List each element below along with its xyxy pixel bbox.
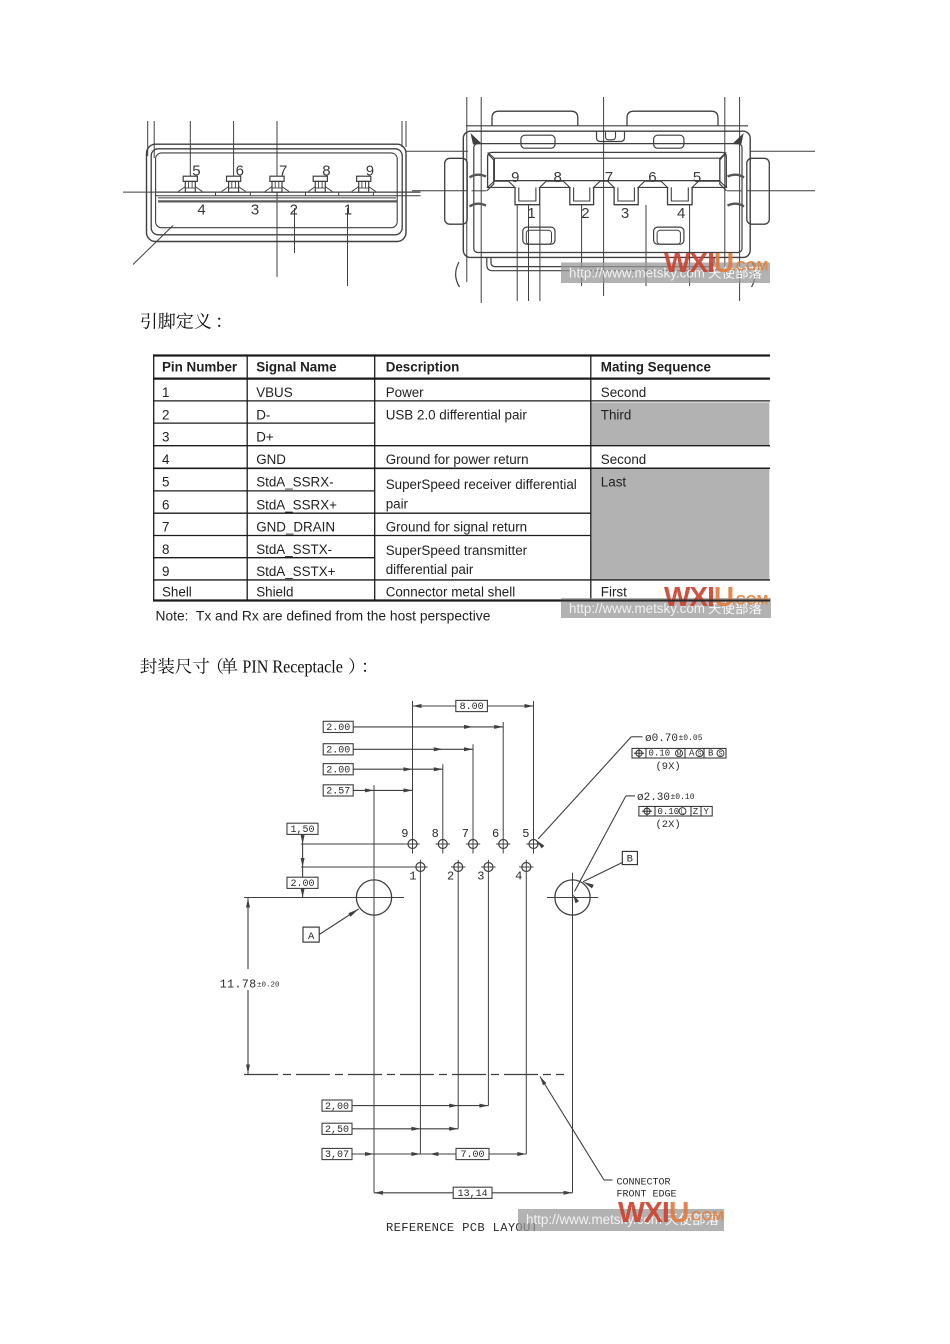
svg-text:8: 8	[432, 827, 439, 841]
wire hole B centerlines	[547, 873, 598, 1193]
svg-text:2: 2	[290, 202, 298, 219]
svg-text:6: 6	[236, 162, 244, 179]
pad 7	[466, 837, 480, 854]
side chamfer right	[720, 154, 727, 191]
svg-text:USB 2.0 differential pair: USB 2.0 differential pair	[386, 407, 528, 422]
dimension 2.00 (pins 7-6)	[323, 721, 503, 734]
svg-text:Shield: Shield	[256, 585, 293, 600]
svg-text:±0.05: ±0.05	[679, 734, 703, 743]
pad 9	[405, 837, 419, 854]
plug body outer	[463, 131, 750, 257]
watermark top url text	[569, 266, 762, 281]
svg-text:±0.10: ±0.10	[671, 793, 695, 802]
svg-text:Connector metal shell: Connector metal shell	[386, 585, 516, 600]
feature control frame 0.10 M A B	[632, 748, 726, 758]
svg-text:8.00: 8.00	[460, 702, 484, 713]
svg-text:A: A	[308, 931, 315, 943]
bottom latch right	[654, 227, 684, 244]
svg-text:6: 6	[492, 827, 499, 841]
corner fold wedge right	[732, 133, 744, 145]
pin contact 9 of left view	[352, 176, 375, 192]
svg-text:1,50: 1,50	[290, 825, 314, 836]
shelf segment ticks	[215, 192, 217, 196]
svg-text:2.00: 2.00	[326, 723, 350, 734]
svg-text:3: 3	[162, 430, 169, 445]
svg-text:0.10: 0.10	[649, 749, 671, 759]
svg-text:±0.20: ±0.20	[257, 982, 280, 990]
bottom latch left	[523, 227, 555, 244]
pad 5	[526, 837, 540, 854]
PCB reference layout drawing	[244, 700, 726, 1192]
svg-text:(2X): (2X)	[656, 819, 681, 831]
svg-text:6: 6	[162, 497, 169, 512]
svg-text:8: 8	[322, 162, 330, 179]
shell inner wall	[151, 149, 402, 235]
svg-text:SuperSpeed transmitter: SuperSpeed transmitter	[386, 543, 528, 558]
pin contact 7 of left view	[265, 176, 288, 192]
svg-text:9: 9	[401, 827, 408, 841]
opening cavity	[156, 153, 398, 228]
hole B	[555, 880, 590, 915]
pad 2	[451, 860, 465, 874]
table row pin 1	[162, 385, 646, 400]
fold shadow marks left	[470, 175, 487, 207]
svg-text:GND: GND	[256, 452, 286, 467]
section break diagonal	[133, 226, 173, 265]
plug contact 1	[515, 187, 540, 204]
svg-text:WXIU: WXIU	[664, 581, 733, 612]
svg-text:WXIU: WXIU	[664, 247, 733, 278]
svg-text:Shell: Shell	[162, 585, 192, 600]
wire horizontal projection lines	[406, 150, 468, 152]
svg-text:VBUS: VBUS	[256, 385, 293, 400]
pin contact 5 of left view	[179, 176, 202, 192]
svg-text:B: B	[627, 854, 633, 866]
svg-text:9: 9	[162, 564, 169, 579]
tongue window outer	[488, 152, 727, 187]
leader connector front edge	[540, 1077, 613, 1181]
wire construction verticals above right view	[466, 97, 468, 282]
tongue shelf top line	[156, 191, 421, 193]
datum label B	[583, 851, 637, 888]
svg-text:ø0.70: ø0.70	[645, 733, 678, 745]
watermark middle logo	[664, 581, 768, 612]
table vertical rules	[154, 356, 591, 601]
dimension 2.57 (hole A - pin 9)	[323, 785, 412, 798]
svg-text:A: A	[689, 749, 695, 759]
dimension 2,00 (pins 2-3)	[322, 1100, 488, 1113]
svg-text:Second: Second	[601, 385, 646, 400]
dimension 2.00 (pins 8-7)	[323, 744, 473, 757]
ledge teeth	[488, 181, 727, 187]
hole A	[356, 880, 391, 915]
leader to pad 5	[537, 737, 643, 849]
dimension 11.78	[220, 898, 280, 1075]
svg-text:pair: pair	[386, 496, 409, 511]
svg-text:1: 1	[162, 385, 169, 400]
bottom flange	[487, 257, 718, 270]
pad 4	[519, 860, 533, 874]
plug contact 2	[570, 187, 594, 204]
svg-text:5: 5	[192, 162, 200, 179]
center latch notch	[597, 131, 625, 141]
svg-text:4: 4	[197, 202, 205, 219]
svg-text:Second: Second	[601, 452, 646, 467]
svg-text:StdA_SSTX-: StdA_SSTX-	[256, 542, 332, 557]
wire reference line bottom pin row	[301, 866, 413, 868]
svg-text:B: B	[708, 749, 714, 759]
bottom right hook curve	[752, 262, 756, 287]
dimension 2.00 (pins 9-8)	[323, 764, 443, 777]
svg-text:2.00: 2.00	[290, 879, 314, 890]
svg-text:4: 4	[677, 205, 685, 222]
svg-text:7: 7	[462, 827, 469, 841]
pad 8	[436, 837, 450, 854]
svg-text:CONNECTOR: CONNECTOR	[617, 1178, 671, 1189]
outer shell	[147, 144, 407, 241]
svg-text:StdA_SSRX+: StdA_SSRX+	[256, 497, 337, 512]
table gray cell Last (rows 5-9)	[592, 469, 770, 580]
wire construction lines below left view	[276, 121, 278, 277]
heading: package dimensions (Chinese + PIN Receptacle)	[140, 658, 366, 674]
svg-text:1: 1	[527, 205, 535, 222]
svg-text:2: 2	[581, 205, 589, 222]
callout 0.70 hole size	[645, 733, 703, 745]
svg-text:.COM: .COM	[687, 1209, 724, 1225]
table row pin 7	[162, 520, 527, 535]
svg-text:7.00: 7.00	[460, 1150, 484, 1161]
wire construction lines above left view	[147, 121, 149, 156]
wire extension lines of top pin columns	[413, 701, 534, 837]
svg-text:13,14: 13,14	[458, 1189, 488, 1200]
svg-text:WXIU: WXIU	[618, 1197, 688, 1229]
svg-text:SuperSpeed receiver differenti: SuperSpeed receiver differential	[386, 477, 577, 492]
svg-text:5: 5	[522, 827, 529, 841]
table bottom border over watermark	[561, 600, 770, 602]
spring window left	[521, 135, 555, 148]
wire extension lines of bottom pin columns	[420, 874, 526, 1154]
top bump left	[492, 111, 578, 126]
side chamfer left	[487, 154, 494, 191]
wire left stub of tongue line	[123, 191, 155, 193]
feature control frame 0.10 L Z Y	[639, 806, 712, 817]
pad 6	[496, 837, 510, 854]
table gray cell Third (rows 2-3)	[592, 402, 770, 445]
svg-text:Ground for power return: Ground for power return	[386, 452, 529, 467]
tongue window inner	[494, 158, 720, 180]
wire construction verticals below right view	[516, 205, 518, 301]
svg-text:Power: Power	[386, 385, 424, 400]
svg-text:GND_DRAIN: GND_DRAIN	[256, 520, 335, 535]
pin contact 6 of left view	[222, 176, 245, 192]
bottom left hook curve	[456, 262, 460, 287]
svg-text:StdA_SSRX-: StdA_SSRX-	[256, 475, 333, 490]
svg-text:D-: D-	[256, 407, 270, 422]
svg-text:11.78: 11.78	[220, 979, 257, 992]
svg-text:Y: Y	[704, 807, 710, 817]
svg-text:6: 6	[648, 169, 656, 186]
heading: pin definition (Chinese)	[141, 313, 220, 330]
svg-text:M: M	[677, 751, 682, 757]
svg-text:ø2.30: ø2.30	[637, 792, 670, 804]
svg-text:4: 4	[162, 452, 170, 467]
right connector drawing: USB3 plug front view	[406, 97, 815, 303]
svg-text:Ground for signal return: Ground for signal return	[386, 520, 527, 535]
top bump right	[627, 111, 718, 126]
svg-text:9: 9	[511, 169, 519, 186]
shell top fold line	[466, 125, 748, 127]
svg-text:Note: Tx and Rx are defined f: Note: Tx and Rx are defined from the hos…	[156, 608, 491, 623]
svg-text:2,00: 2,00	[325, 1102, 349, 1113]
table row pin 8	[162, 542, 528, 558]
svg-text:1: 1	[409, 870, 416, 884]
svg-text:REFERENCE PCB LAYOUT: REFERENCE PCB LAYOUT	[386, 1221, 538, 1235]
plug contact 3	[614, 187, 638, 204]
svg-text:3: 3	[251, 202, 259, 219]
table horizontal rules	[153, 356, 770, 601]
tongue bottom line	[158, 197, 396, 199]
svg-text:differential pair: differential pair	[386, 562, 474, 577]
dimension 2,50 (pins 1-2)	[322, 1123, 458, 1136]
svg-text:8: 8	[554, 169, 562, 186]
watermark bottom logo	[618, 1197, 724, 1229]
dimension 3,07 and 7.00	[322, 1148, 526, 1161]
svg-text:2,50: 2,50	[325, 1125, 349, 1136]
svg-text:2.00: 2.00	[326, 746, 350, 757]
fold shadow marks right	[728, 175, 745, 207]
table row pin 9	[162, 562, 474, 579]
svg-text:S: S	[697, 751, 701, 757]
svg-text:PIN Receptacle: PIN Receptacle	[242, 657, 343, 677]
svg-text:3: 3	[477, 870, 484, 884]
table row pin 2	[162, 407, 631, 422]
svg-text:StdA_SSTX+: StdA_SSTX+	[256, 564, 335, 579]
svg-text:.COM: .COM	[732, 258, 769, 274]
svg-text:3: 3	[621, 205, 629, 222]
tongue bottom shadow line	[158, 200, 397, 202]
corner fold wedge left	[471, 133, 483, 145]
svg-text:7: 7	[279, 162, 287, 179]
svg-text:5: 5	[162, 475, 169, 490]
svg-text:0.10: 0.10	[658, 807, 680, 817]
svg-text:S: S	[718, 751, 722, 757]
table row pin 3	[162, 430, 274, 445]
svg-text:8: 8	[162, 542, 169, 557]
callout 2.30 hole size	[637, 792, 695, 804]
table row pin 6	[162, 496, 409, 512]
dimension 13,14 (A-B)	[374, 1187, 573, 1200]
wire hole A centerlines	[244, 785, 404, 1193]
svg-text:Last: Last	[601, 475, 627, 490]
watermark bottom bar	[518, 1209, 724, 1231]
plug contact 4	[668, 187, 693, 204]
dimension 1,50	[287, 823, 318, 897]
left connector drawing: USB3 receptacle front view	[123, 121, 421, 286]
plug body inner wall	[474, 144, 742, 253]
svg-text:First: First	[601, 585, 627, 600]
svg-text:7: 7	[605, 169, 613, 186]
label connector front edge	[617, 1178, 677, 1201]
svg-text:1: 1	[344, 202, 352, 219]
svg-text:2.57: 2.57	[326, 787, 350, 798]
svg-text:Mating Sequence: Mating Sequence	[601, 359, 711, 374]
svg-text:5: 5	[693, 169, 701, 186]
dimension 2.00 (rows)	[287, 877, 318, 897]
svg-text:7: 7	[162, 520, 169, 535]
table row pin 5	[162, 475, 626, 492]
svg-text:3,07: 3,07	[325, 1150, 349, 1161]
pin contact 8 of left view	[309, 176, 332, 192]
watermark middle bar	[561, 598, 771, 618]
spring window right	[654, 135, 684, 148]
dimension 8.00	[413, 700, 534, 713]
table row pin Shell	[162, 585, 627, 600]
watermark top bar	[561, 263, 770, 284]
side ear right	[747, 158, 770, 224]
svg-text:(9X): (9X)	[656, 761, 681, 773]
pad 3	[481, 860, 495, 874]
side ear left	[445, 158, 468, 224]
wire reference line top pin row	[301, 843, 405, 845]
leader to hole B	[573, 796, 635, 903]
svg-text:4: 4	[515, 870, 522, 884]
svg-text:Third: Third	[601, 407, 632, 422]
svg-text:Signal Name: Signal Name	[256, 359, 336, 374]
svg-text:2.00: 2.00	[326, 765, 350, 776]
window corner diagonals	[488, 152, 495, 158]
watermark bottom url text	[526, 1212, 719, 1227]
table header row	[162, 359, 711, 374]
pad 1	[413, 860, 427, 874]
svg-text:2: 2	[162, 407, 169, 422]
tongue shelf second line	[156, 195, 421, 197]
svg-text:Z: Z	[693, 807, 699, 817]
table row pin 4	[162, 452, 646, 467]
watermark top logo	[664, 247, 768, 278]
watermark middle url text	[569, 601, 762, 616]
svg-text:Pin Number: Pin Number	[162, 359, 238, 374]
svg-text:D+: D+	[256, 430, 274, 445]
svg-text:Description: Description	[386, 359, 460, 374]
svg-text:2: 2	[447, 870, 454, 884]
svg-text:9: 9	[366, 162, 374, 179]
datum label A	[303, 909, 359, 943]
connector front edge centerline	[244, 1074, 564, 1076]
